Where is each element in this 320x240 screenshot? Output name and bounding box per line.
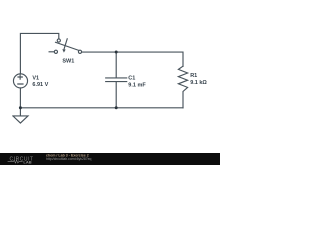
svg-text:http:∕∕circuitlab.com∕c6yk287e: http:∕∕circuitlab.com∕c6yk287eq [46, 157, 92, 161]
svg-text:LAB: LAB [23, 159, 31, 164]
svg-text:9.1 kΩ: 9.1 kΩ [190, 80, 207, 86]
svg-text:R1: R1 [190, 73, 197, 79]
svg-text:C1: C1 [128, 75, 135, 81]
svg-text:6.91 V: 6.91 V [32, 82, 48, 88]
svg-text:V1: V1 [32, 76, 39, 82]
svg-text:9.1 mF: 9.1 mF [128, 82, 146, 88]
svg-text:SW1: SW1 [62, 59, 74, 65]
